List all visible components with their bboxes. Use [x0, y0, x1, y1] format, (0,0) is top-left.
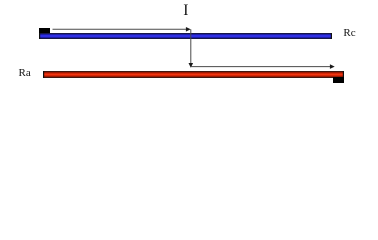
wire: current arrow down from Rc to Ra: [189, 29, 194, 68]
resistor Rc bar (blue): [39, 33, 332, 39]
wire: current arrow along top of Ra: [191, 64, 335, 69]
resistor Ra bar (red): [43, 71, 344, 78]
contact cap on Ra (black, bottom-right): [333, 77, 345, 83]
wire: current arrow along top of Rc: [53, 27, 191, 32]
contact cap on Rc (black, top-left): [39, 28, 50, 33]
label Rc: [343, 28, 355, 39]
label I (current): [183, 3, 188, 18]
label Ra: [19, 68, 31, 79]
